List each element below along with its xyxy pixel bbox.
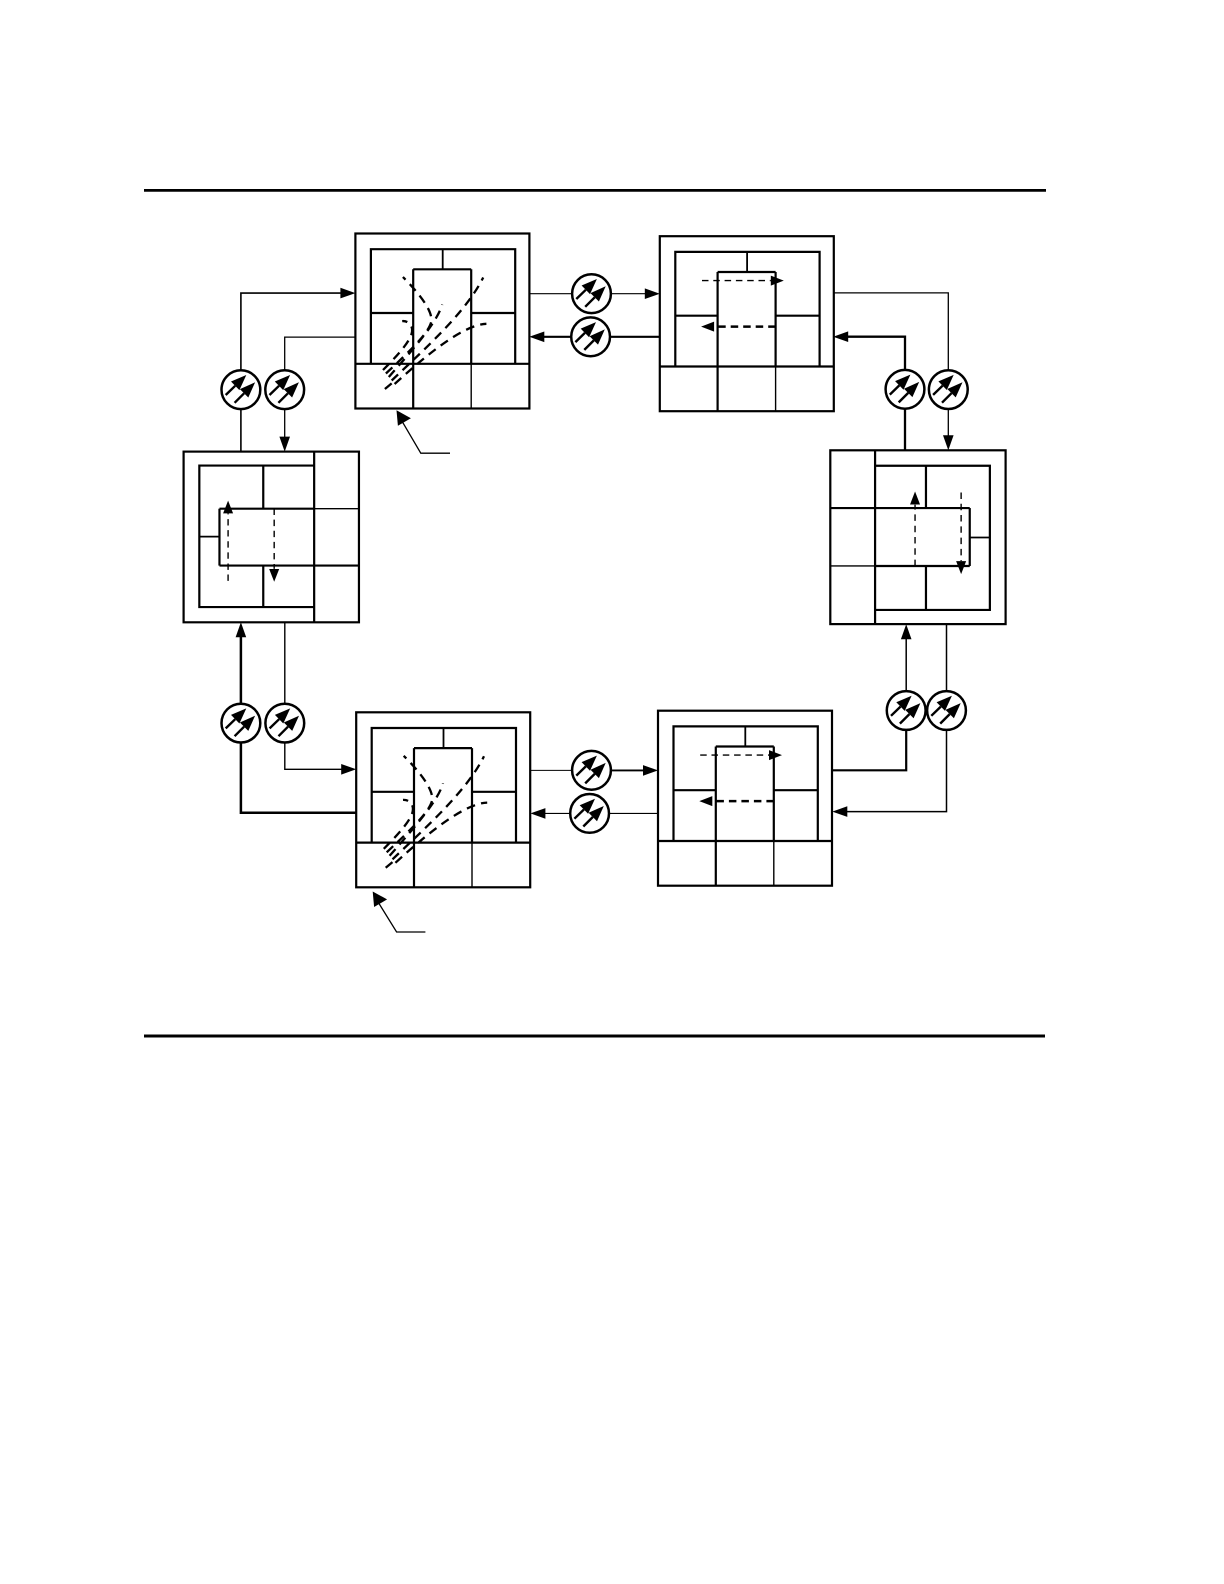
transceiver circle B1 [572, 751, 611, 790]
wire BR to R lower part [832, 731, 906, 770]
wire TR to TL [543, 336, 660, 338]
transceiver circle BR1 [887, 691, 926, 730]
wire BL to BR thick part [591, 769, 644, 771]
arrow into BL left [341, 764, 356, 775]
transceiver circle B2 [570, 794, 609, 833]
wire TL to TR [529, 293, 646, 295]
wire L to BL [285, 622, 343, 769]
horizontal rule bottom [144, 1035, 1045, 1038]
transceiver circle T1 [572, 274, 611, 313]
callout leader TL [397, 410, 451, 453]
arrow into R bottom [901, 624, 912, 639]
wire BR to BL [544, 812, 658, 814]
arrow into BR right [832, 806, 847, 817]
wire TL to L [285, 337, 356, 437]
wire R to TR [847, 337, 905, 451]
horizontal rule top [144, 189, 1046, 192]
arrow into L top [279, 437, 290, 452]
wire BL to L [241, 636, 356, 813]
node TR shelf [660, 236, 834, 411]
node TL shelf [355, 234, 529, 409]
transceiver circle BL1 [222, 704, 261, 743]
transceiver circle T2 [571, 317, 610, 356]
wire BL to BR thin part [530, 769, 591, 771]
arrow into TL right [529, 332, 544, 343]
transceiver circle L1 [222, 370, 261, 409]
callout BL line [376, 899, 425, 932]
callout TL arrowhead [397, 410, 411, 426]
arrow into R top [943, 435, 954, 450]
arrow into TR left [645, 288, 660, 299]
transceiver circle BR2 [927, 691, 966, 730]
wire R to BR [846, 624, 946, 812]
callout leader BL [373, 892, 426, 933]
wire BR to R upper part [905, 638, 907, 691]
transceiver circle BL2 [265, 704, 304, 743]
wire TR to R [833, 293, 948, 437]
callout TL line [400, 418, 450, 453]
callout BL arrowhead [373, 892, 387, 908]
node R shelf [830, 450, 1005, 624]
transceiver circle R2 [929, 370, 968, 409]
node BL shelf [356, 712, 530, 887]
arrow into L bottom [236, 622, 247, 637]
node BR shelf [658, 711, 832, 886]
arrow into BR left [643, 765, 658, 776]
arrow into TR right [833, 331, 848, 342]
node L shelf [184, 452, 359, 623]
wire L to TL [241, 293, 342, 452]
transceiver circle L2 [265, 370, 304, 409]
arrow into TL left [340, 288, 355, 299]
arrow into BL right [530, 808, 545, 819]
transceiver circle R1 [886, 370, 925, 409]
